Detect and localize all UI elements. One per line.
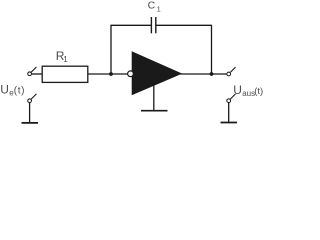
node: feedback junction left	[109, 72, 113, 76]
ground (op-amp)	[141, 110, 168, 112]
svg-text:1: 1	[157, 5, 161, 14]
terminal tick (45°) bottom-left	[31, 94, 36, 99]
terminal tick (45°) top-left	[31, 67, 36, 72]
terminal tick (45°) bottom-right	[230, 94, 235, 99]
node Uaus: output terminal top-right	[227, 72, 231, 76]
wire: top feedback left segment	[110, 24, 151, 26]
wire: junction up	[110, 25, 112, 74]
wire: op-amp ground stem	[153, 85, 155, 110]
wire: input terminal to resistor	[32, 73, 42, 75]
node Uein: input terminal top-left	[28, 72, 32, 76]
wire: top feedback right segment	[156, 24, 212, 26]
label R1	[56, 49, 68, 64]
node: output junction	[210, 72, 214, 76]
svg-text:C: C	[148, 0, 156, 12]
label Ue(t) input voltage	[0, 83, 25, 98]
svg-text:U: U	[0, 83, 9, 97]
capacitor C1: left plate	[150, 17, 152, 33]
ground (right)	[221, 122, 238, 124]
terminal circle bottom-right	[227, 99, 231, 103]
wire: right terminal to ground	[228, 103, 230, 123]
wire: feedback down to output node	[211, 25, 213, 74]
ground (left)	[22, 122, 39, 124]
label C1	[148, 0, 161, 14]
op-amp inverting input bubble	[128, 71, 134, 77]
svg-text:(t): (t)	[14, 86, 25, 97]
svg-text:(t): (t)	[254, 86, 263, 97]
op-amp U1: inverting amplifier triangle (filled)	[132, 52, 181, 95]
wire: op-amp output to output terminal	[180, 73, 227, 75]
svg-text:aus: aus	[242, 89, 255, 98]
wire: left terminal to ground	[29, 103, 31, 123]
terminal circle bottom-left	[28, 99, 32, 103]
capacitor C1: right plate	[155, 17, 157, 33]
svg-text:1: 1	[63, 55, 68, 64]
wire: resistor to op-amp input bubble	[88, 73, 128, 75]
svg-text:U: U	[233, 83, 242, 97]
label Ua(t) output voltage	[233, 83, 263, 98]
terminal tick (45°) top-right	[230, 67, 235, 72]
resistor R1 (box)	[42, 66, 88, 82]
